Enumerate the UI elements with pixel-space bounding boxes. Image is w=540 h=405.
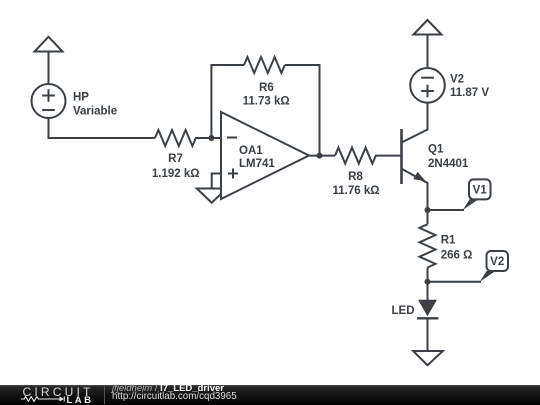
svg-text:2N4401: 2N4401 (428, 158, 469, 170)
svg-text:R7: R7 (168, 153, 183, 165)
svg-text:Q1: Q1 (428, 144, 444, 156)
svg-text:HP: HP (73, 92, 89, 104)
svg-text:V1: V1 (473, 185, 488, 197)
svg-text:R8: R8 (348, 171, 363, 183)
svg-text:11.76 kΩ: 11.76 kΩ (333, 185, 380, 197)
svg-text:V2: V2 (450, 73, 464, 85)
svg-text:LM741: LM741 (239, 158, 275, 170)
svg-text:V2: V2 (490, 256, 504, 268)
svg-text:1.192 kΩ: 1.192 kΩ (152, 168, 200, 180)
svg-text:R6: R6 (259, 82, 274, 94)
svg-text:11.87 V: 11.87 V (450, 87, 489, 99)
svg-text:OA1: OA1 (239, 145, 263, 157)
svg-text:266 Ω: 266 Ω (441, 249, 473, 261)
svg-text:Variable: Variable (73, 105, 117, 117)
svg-text:LED: LED (392, 305, 415, 317)
svg-text:11.73 kΩ: 11.73 kΩ (243, 95, 290, 107)
svg-text:R1: R1 (441, 234, 456, 246)
